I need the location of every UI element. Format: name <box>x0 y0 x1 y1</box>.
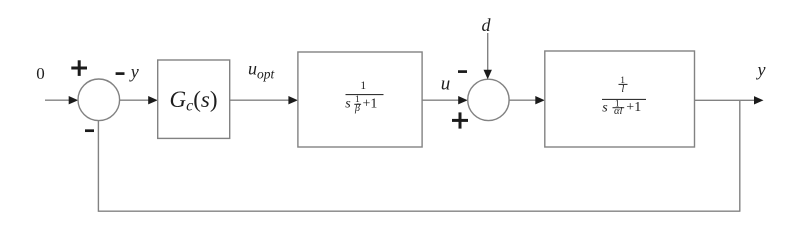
wire actuator to summing junction S2, node u <box>422 99 460 101</box>
svg-text:αl: αl <box>614 106 623 117</box>
svg-text:0: 0 <box>36 64 45 83</box>
svg-text:d: d <box>482 15 492 35</box>
svg-text:y: y <box>756 59 766 79</box>
wire S1 to controller block <box>120 99 150 101</box>
node -y label <box>116 61 139 81</box>
wire feedback branch vertical right <box>739 100 741 211</box>
svg-text:u: u <box>441 74 451 95</box>
svg-text:s: s <box>345 96 351 111</box>
wire d down into S2 <box>487 33 489 72</box>
svg-text:Gc(s): Gc(s) <box>169 87 217 115</box>
wire plant to output node y <box>695 99 755 101</box>
controller block Gc(s) <box>158 60 230 138</box>
svg-text:y: y <box>129 61 139 81</box>
plus sign at summing junction S1 <box>71 60 87 76</box>
svg-text:1: 1 <box>360 80 366 92</box>
minus sign (d into S2) <box>458 70 467 73</box>
plus sign (u into S2) <box>452 112 468 128</box>
plant block (1/l)/(s(1/(alpha l))+1) <box>545 51 695 147</box>
svg-text:+1: +1 <box>626 100 641 115</box>
svg-text:s: s <box>602 101 608 116</box>
svg-text:+1: +1 <box>363 96 378 111</box>
wire S2 to plant block <box>509 99 537 101</box>
wire feedback vertical left up to S1 <box>97 121 99 212</box>
wire input arrow into summing junction S1 <box>45 99 71 101</box>
wire feedback bottom horizontal <box>98 210 740 212</box>
summing junction S1 <box>78 79 120 121</box>
summing junction S2 <box>468 79 509 120</box>
svg-text:uopt: uopt <box>248 59 276 82</box>
svg-text:β: β <box>354 103 360 114</box>
minus sign (feedback into S1) <box>85 129 94 132</box>
actuator block 1/(s(1/beta)+1) <box>298 52 422 147</box>
svg-text:l: l <box>621 84 624 95</box>
wire controller to actuator block, node u_opt <box>230 99 290 101</box>
